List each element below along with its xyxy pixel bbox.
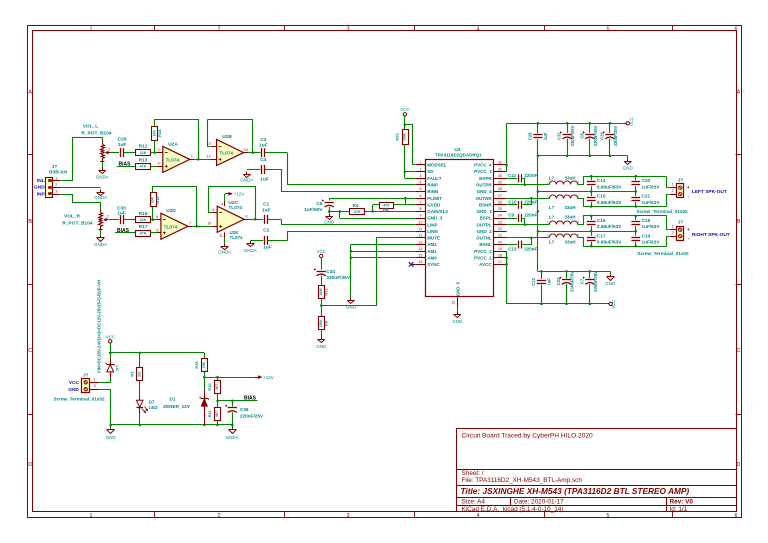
svg-text:9: 9 (420, 214, 422, 218)
svg-text:6: 6 (735, 27, 738, 33)
svg-text:C28: C28 (527, 132, 532, 140)
svg-text:R_POT_B104: R_POT_B104 (81, 131, 111, 137)
svg-text:C: C (28, 348, 32, 354)
resistor R10 4K7 (217, 377, 219, 380)
wire to right speaker terminal (667, 216, 670, 230)
svg-text:47K: 47K (140, 231, 147, 235)
resistor R11 4K7 (217, 401, 219, 408)
svg-text:2: 2 (577, 234, 579, 238)
svg-text:GND: GND (623, 166, 634, 171)
svg-text:MUTE: MUTE (427, 236, 440, 241)
capacitor C21 1uF/63V (635, 192, 637, 197)
svg-text:GND: GND (316, 344, 327, 349)
svg-text:TL074: TL074 (164, 224, 178, 229)
svg-text:GNDA: GNDA (240, 178, 253, 183)
svg-text:2: 2 (577, 181, 579, 185)
svg-text:2: 2 (158, 148, 160, 152)
svg-text:10K: 10K (202, 361, 206, 368)
svg-text:8: 8 (246, 215, 248, 219)
svg-text:330uF/35V: 330uF/35V (569, 271, 574, 292)
svg-text:5: 5 (607, 513, 610, 519)
svg-text:2: 2 (577, 221, 579, 225)
svg-text:220nF: 220nF (524, 213, 537, 218)
capacitor C29 1uF (120, 148, 122, 157)
svg-text:C9: C9 (508, 213, 514, 218)
svg-text:1: 1 (672, 225, 674, 229)
wire R19 to +12V node (204, 372, 206, 378)
svg-text:10: 10 (419, 220, 423, 224)
power symbol VCC power input (109, 340, 112, 343)
svg-text:D?: D? (115, 365, 120, 371)
wire R20 to SD pin 2 and FAULT pin 3 (404, 144, 406, 178)
svg-text:27: 27 (498, 194, 502, 198)
svg-text:BSPL: BSPL (480, 216, 492, 221)
svg-text:BIAS: BIAS (244, 396, 257, 402)
wire BIAS line (218, 400, 258, 402)
svg-text:32: 32 (498, 161, 502, 165)
svg-text:C31: C31 (557, 131, 562, 139)
svg-text:8: 8 (420, 207, 422, 211)
svg-text:PVCC_4: PVCC_4 (474, 163, 492, 168)
wire R9 to GND (321, 330, 323, 337)
svg-text:1uF: 1uF (259, 143, 268, 149)
frame row ticks left/right (28, 154, 33, 156)
resistor R21 100K (319, 286, 325, 299)
junction R4/R6 node (371, 210, 374, 213)
capacitor C7 330uF/35V (589, 271, 591, 278)
wire VCC bottom rail (507, 303, 608, 305)
junction C10/OUTNR (530, 197, 533, 200)
svg-text:R21: R21 (324, 287, 329, 295)
wire PLIMIT pin 6 line (329, 198, 416, 200)
wire MUTE pin 12 to R21/R9 node (322, 238, 416, 306)
junction MUTE node (321, 299, 323, 317)
svg-text:R1: R1 (129, 371, 134, 377)
wire U2C output to C1 (249, 219, 264, 221)
svg-text:28: 28 (498, 187, 502, 191)
svg-text:4: 4 (221, 202, 223, 206)
svg-text:GND: GND (452, 319, 463, 324)
svg-text:Title: JSXINGHE XH-M543 (TPA31: Title: JSXINGHE XH-M543 (TPA3116D2 BTL S… (461, 486, 690, 496)
svg-text:R10: R10 (207, 383, 212, 391)
svg-text:TL074: TL074 (166, 157, 180, 162)
inductor L3 33uH (549, 221, 577, 225)
potentiometer VOL_L R_POT_B104 (102, 142, 104, 145)
svg-text:33uH: 33uH (564, 175, 575, 180)
svg-text:24: 24 (498, 214, 502, 218)
resistor R13 47K (136, 164, 151, 170)
wire PVCC_2/PVCC_1/AVCC riser (506, 251, 508, 304)
svg-text:TL074: TL074 (219, 151, 233, 156)
svg-text:220nF: 220nF (524, 246, 537, 251)
op-amp U2C TL074 (217, 206, 244, 232)
svg-text:2: 2 (94, 384, 96, 388)
wire U2B output to C3 (248, 152, 260, 154)
svg-text:26: 26 (498, 201, 502, 205)
wire OUTPL pin 23 to L3 (507, 224, 550, 226)
svg-text:GND_5: GND_5 (456, 281, 461, 296)
wire BIAS to R13 (117, 166, 136, 168)
svg-text:1uF: 1uF (262, 207, 271, 213)
svg-text:330uF/35V: 330uF/35V (326, 275, 351, 281)
svg-text:BSPR: BSPR (479, 176, 492, 181)
power symbol VCC right of bottom rail (607, 303, 609, 305)
svg-text:R17: R17 (139, 224, 148, 230)
svg-text:1: 1 (672, 183, 674, 187)
svg-text:C36: C36 (240, 407, 249, 412)
svg-text:VOL_R: VOL_R (64, 214, 81, 220)
connector J? power Screw_Terminal_01x02 (90, 382, 99, 384)
wire GND rail below decoupling caps (538, 155, 628, 157)
svg-text:INP: INP (37, 191, 46, 197)
svg-text:4: 4 (477, 513, 480, 519)
svg-text:D: D (737, 462, 741, 468)
svg-text:1uF/63V: 1uF/63V (642, 184, 661, 189)
svg-text:470: 470 (383, 203, 389, 207)
svg-text:GNDA: GNDA (226, 435, 239, 440)
svg-text:31: 31 (498, 167, 502, 171)
svg-text:J?: J? (83, 372, 89, 378)
svg-text:C20: C20 (642, 178, 651, 183)
capacitor C31 330uF/35V (567, 123, 569, 133)
svg-text:U2D: U2D (166, 208, 176, 214)
svg-text:220nF: 220nF (524, 173, 537, 178)
wire AM2/AM1/AM0 pins to GND (351, 244, 416, 246)
svg-text:R13: R13 (139, 157, 148, 163)
svg-text:30: 30 (498, 174, 502, 178)
IC U3 right pins (494, 164, 507, 166)
junction C13/OUTNL (530, 237, 533, 240)
svg-text:C21: C21 (642, 194, 651, 199)
svg-text:1: 1 (94, 377, 96, 381)
wire R13 to U2A pin 3 (151, 166, 158, 168)
svg-text:11: 11 (419, 227, 423, 231)
svg-text:GNDA: GNDA (94, 195, 107, 200)
junction R12/R14 node (154, 151, 157, 154)
svg-text:4K7: 4K7 (215, 411, 219, 417)
svg-text:VCC: VCC (400, 107, 410, 112)
svg-text:GAIN/SLV: GAIN/SLV (427, 209, 448, 214)
svg-text:C32: C32 (599, 131, 604, 139)
svg-text:TL074: TL074 (230, 235, 244, 240)
wire terminal pin 2 to GND rail (99, 390, 111, 425)
wire L3 to top rail channel 2 (578, 216, 667, 225)
svg-text:4K7: 4K7 (215, 384, 219, 390)
svg-text:U2A: U2A (168, 141, 178, 147)
op-amp U2B TL074 (217, 139, 244, 165)
svg-text:13: 13 (419, 240, 423, 244)
svg-text:Size: A4: Size: A4 (462, 498, 486, 505)
frame column ticks top/bottom (154, 26, 156, 32)
svg-text:VIN=DC18V-24V(3A)=DC12V-26V(5A: VIN=DC18V-24V(3A)=DC12V-26V(5A)-B2P-VH (97, 280, 102, 373)
svg-text:6: 6 (156, 215, 158, 219)
svg-text:C33: C33 (556, 277, 561, 285)
resistor R17 47K (136, 231, 151, 237)
svg-text:GND_4: GND_4 (477, 189, 493, 194)
svg-text:AVCC: AVCC (479, 262, 492, 267)
svg-text:C12: C12 (531, 277, 536, 285)
svg-text:23: 23 (498, 220, 502, 224)
svg-text:C2: C2 (263, 228, 269, 234)
resistor R4 47K (350, 209, 365, 215)
svg-text:SYNC: SYNC (427, 262, 440, 267)
svg-text:2: 2 (218, 27, 221, 33)
svg-text:Screw_Terminal_01x02: Screw_Terminal_01x02 (636, 209, 688, 214)
svg-text:3: 3 (347, 513, 350, 519)
svg-text:PVCC_2: PVCC_2 (474, 249, 492, 254)
wire OUTNR pin 27 to L2 (507, 198, 550, 200)
power symbol GND below AM pins (350, 298, 352, 301)
wire OUTNL pin 21 to L4 (507, 237, 550, 239)
wire R4 to GVDD pin 7 (393, 204, 416, 206)
capacitor C18 1uF/63V (635, 216, 637, 220)
svg-text:L?: L? (549, 239, 555, 244)
wire OUTPR pin 29 to L1 (507, 184, 550, 186)
capacitor C15 0.68uF/63V (591, 192, 593, 197)
svg-text:AM2: AM2 (427, 242, 437, 247)
wire PVCC_4/PVCC_3 riser to VCC rail (506, 165, 508, 172)
capacitor C2 1uF (250, 240, 263, 242)
svg-text:GND_3: GND_3 (427, 216, 443, 221)
svg-text:R6: R6 (383, 207, 389, 212)
svg-text:OUTNL: OUTNL (476, 236, 492, 241)
wire C30 to R16 (124, 219, 136, 221)
svg-text:1uF: 1uF (260, 177, 269, 183)
svg-text:B3B-XH: B3B-XH (49, 170, 67, 176)
wire U2C feedback loop (209, 187, 212, 213)
svg-text:C: C (737, 348, 741, 354)
resistor R6 470 (372, 205, 374, 212)
svg-text:GND: GND (605, 281, 616, 286)
resistor R9 100K (319, 317, 325, 330)
power symbol VCC above R20 (403, 113, 406, 116)
no-connect flag SYNC pin 16 (411, 264, 416, 266)
svg-text:29: 29 (498, 181, 502, 185)
connector J? right speaker Screw_Terminal_01x02 (670, 229, 677, 231)
title block row lines (457, 469, 737, 471)
wire R16 to U2D pin 6 (151, 219, 158, 221)
svg-text:100K: 100K (403, 132, 407, 141)
potentiometer VOL_R R_POT_B104 (100, 209, 102, 212)
power symbol GND at bottom rail (110, 425, 112, 427)
power symbol VCC above C34 (320, 254, 323, 257)
svg-text:15: 15 (419, 254, 423, 258)
svg-text:33uH: 33uH (564, 215, 575, 220)
capacitor C34 330uF/35V (321, 258, 323, 270)
svg-text:VCC: VCC (611, 300, 616, 309)
svg-text:220uF/25V: 220uF/25V (240, 413, 264, 418)
svg-text:22: 22 (498, 227, 502, 231)
svg-text:L?: L? (549, 205, 555, 210)
junction VCC/diode (109, 352, 112, 355)
svg-text:R15: R15 (155, 196, 160, 204)
power symbol GND right of bottom rail (610, 271, 612, 274)
svg-text:14: 14 (419, 247, 423, 251)
capacitor C3 1uF (261, 148, 263, 157)
svg-text:R9: R9 (324, 320, 329, 326)
svg-text:R12: R12 (139, 144, 148, 150)
svg-text:2: 2 (420, 167, 422, 171)
inductor L4 33uH (549, 234, 577, 238)
svg-text:14: 14 (244, 148, 248, 152)
svg-text:1: 1 (55, 176, 57, 180)
wire GND bus vertical (537, 156, 539, 272)
svg-text:J?: J? (678, 220, 684, 226)
power symbol VCC right of top rail (624, 123, 626, 125)
svg-text:D: D (28, 462, 32, 468)
svg-text:R20: R20 (394, 133, 399, 141)
svg-text:FAULT: FAULT (427, 176, 441, 181)
svg-text:Circuit Board Traced by CyberP: Circuit Board Traced by CyberPH HILO 202… (462, 433, 594, 440)
svg-text:GNDA: GNDA (244, 248, 257, 253)
wire R15 feedback loop U2D (152, 207, 154, 220)
svg-text:330uF/35V: 330uF/35V (593, 271, 598, 292)
svg-text:5: 5 (156, 228, 158, 232)
svg-text:33uH: 33uH (564, 205, 575, 210)
svg-text:1uF: 1uF (546, 278, 551, 286)
junction U2D output (196, 225, 199, 228)
svg-text:0.68uF/63V: 0.68uF/63V (597, 240, 622, 245)
svg-text:RIGHT SPK-OUT: RIGHT SPK-OUT (692, 232, 730, 238)
junction U2B output (252, 151, 255, 154)
power symbol GNDA below VOL_L (102, 168, 104, 171)
resistor R20 100K (404, 125, 406, 130)
connector J? left speaker Screw_Terminal_01x02 (670, 187, 677, 189)
svg-text:2: 2 (107, 215, 109, 219)
svg-text:33uH: 33uH (564, 239, 575, 244)
svg-text:2: 2 (108, 148, 110, 152)
svg-text:1uF/63V: 1uF/63V (642, 240, 661, 245)
svg-text:ZENER_12V: ZENER_12V (163, 404, 191, 409)
svg-text:4: 4 (477, 27, 480, 33)
svg-text:330uF/35V: 330uF/35V (593, 125, 598, 146)
svg-text:GND_3: GND_3 (477, 209, 493, 214)
wire VOL_L wiper to C29 (111, 152, 120, 154)
power symbol GNDA at C2 (250, 241, 252, 244)
svg-text:C4: C4 (260, 157, 266, 163)
wire R10 to BIAS node (217, 394, 219, 401)
svg-text:AM1: AM1 (427, 249, 437, 254)
svg-text:D7: D7 (149, 399, 155, 404)
power symbol GND below R9 (321, 337, 323, 340)
svg-text:100K: 100K (319, 319, 323, 328)
svg-text:C8: C8 (579, 133, 584, 139)
svg-text:Screw_Terminal_01x02: Screw_Terminal_01x02 (53, 396, 105, 401)
svg-text:13: 13 (207, 141, 211, 145)
svg-text:C16: C16 (597, 218, 606, 223)
svg-text:0.68uF/63V: 0.68uF/63V (597, 224, 622, 229)
svg-text:9: 9 (212, 208, 214, 212)
svg-text:+12V: +12V (263, 375, 274, 380)
svg-text:GND: GND (324, 220, 335, 225)
wire C29 to R12 (124, 152, 136, 154)
junction dots on VCC top rail (537, 122, 540, 125)
power symbol GNDA at bottom rail right (232, 425, 234, 427)
svg-text:C3: C3 (260, 137, 266, 143)
svg-text:GVDD: GVDD (427, 202, 441, 207)
svg-text:22K: 22K (140, 218, 147, 222)
svg-text:7: 7 (189, 222, 191, 226)
junction R16/R15 node (152, 218, 155, 221)
svg-text:1: 1 (191, 155, 193, 159)
svg-text:OUTNR: OUTNR (476, 196, 493, 201)
svg-text:C13: C13 (508, 246, 517, 251)
svg-text:VCC: VCC (106, 335, 116, 340)
svg-text:U2B: U2B (222, 134, 232, 140)
svg-text:AM0: AM0 (427, 255, 437, 260)
svg-text:Rev: V0: Rev: V0 (670, 498, 694, 505)
svg-text:TPA3116D2QDADRQ1: TPA3116D2QDADRQ1 (435, 153, 482, 158)
capacitor C20 1uF/63V (635, 176, 637, 180)
wire L1 to top rail (578, 177, 667, 185)
svg-text:C7: C7 (579, 278, 584, 284)
power symbol GNDA at connector (100, 189, 102, 192)
wire diode to terminal pin 1 (99, 378, 111, 383)
svg-text:12: 12 (419, 234, 423, 238)
svg-text:C18: C18 (642, 218, 651, 223)
svg-text:2: 2 (55, 183, 57, 187)
svg-text:201: 201 (137, 371, 141, 377)
svg-text:A: A (737, 90, 741, 96)
svg-text:C34: C34 (326, 269, 335, 275)
svg-text:OUTPR: OUTPR (476, 183, 493, 188)
svg-text:LEFT SPK-OUT: LEFT SPK-OUT (692, 189, 727, 195)
svg-text:0.68uF/63V: 0.68uF/63V (597, 200, 622, 205)
svg-text:6: 6 (420, 194, 422, 198)
resistor R12 22K (136, 150, 151, 156)
svg-text:R16: R16 (139, 211, 148, 217)
junction U2C output (254, 218, 257, 221)
svg-text:GND: GND (34, 185, 45, 191)
svg-text:12: 12 (207, 155, 211, 159)
svg-text:RINN: RINN (427, 189, 438, 194)
svg-text:OUTPL: OUTPL (476, 222, 492, 227)
svg-text:GND: GND (346, 305, 357, 310)
svg-text:LINN: LINN (427, 229, 438, 234)
svg-text:1uF/50V: 1uF/50V (304, 207, 323, 213)
capacitor C13 220nF bootstrap (507, 244, 517, 246)
capacitor C11 220nF bootstrap (507, 178, 517, 180)
svg-text:47K: 47K (140, 165, 147, 169)
svg-text:L?: L? (549, 175, 555, 180)
svg-text:5: 5 (607, 27, 610, 33)
wire VCC top rail (507, 123, 625, 125)
svg-text:3: 3 (158, 162, 160, 166)
wire to left speaker terminal (667, 177, 670, 188)
svg-text:0.68uF/63V: 0.68uF/63V (597, 184, 622, 189)
capacitor C36 220uF/25V (232, 401, 234, 407)
wire GND mid rail channel 1 (538, 191, 636, 193)
wire GND_1 pin 9 line (339, 211, 341, 218)
svg-text:22K: 22K (140, 151, 147, 155)
svg-text:330uF/35V: 330uF/35V (570, 125, 575, 146)
svg-text:SD: SD (427, 169, 434, 174)
svg-text:C29: C29 (118, 136, 127, 142)
power symbol GND below U3 (457, 312, 459, 315)
wire R14 feedback loop U2A (154, 140, 156, 152)
svg-text:RINP: RINP (427, 183, 438, 188)
power symbol +12V at U2C (225, 193, 229, 195)
wire GND mid rail channel 2 (538, 231, 636, 233)
svg-text:25: 25 (498, 207, 502, 211)
svg-text:GND: GND (106, 435, 117, 440)
svg-text:+12V: +12V (234, 192, 245, 197)
svg-text:GND: GND (68, 387, 79, 393)
junction PLIMIT/GVDD riser (404, 197, 407, 200)
op-amp power pin 4 to +12V (224, 201, 226, 206)
svg-text:INL: INL (37, 178, 45, 184)
svg-text:L?: L? (549, 215, 555, 220)
